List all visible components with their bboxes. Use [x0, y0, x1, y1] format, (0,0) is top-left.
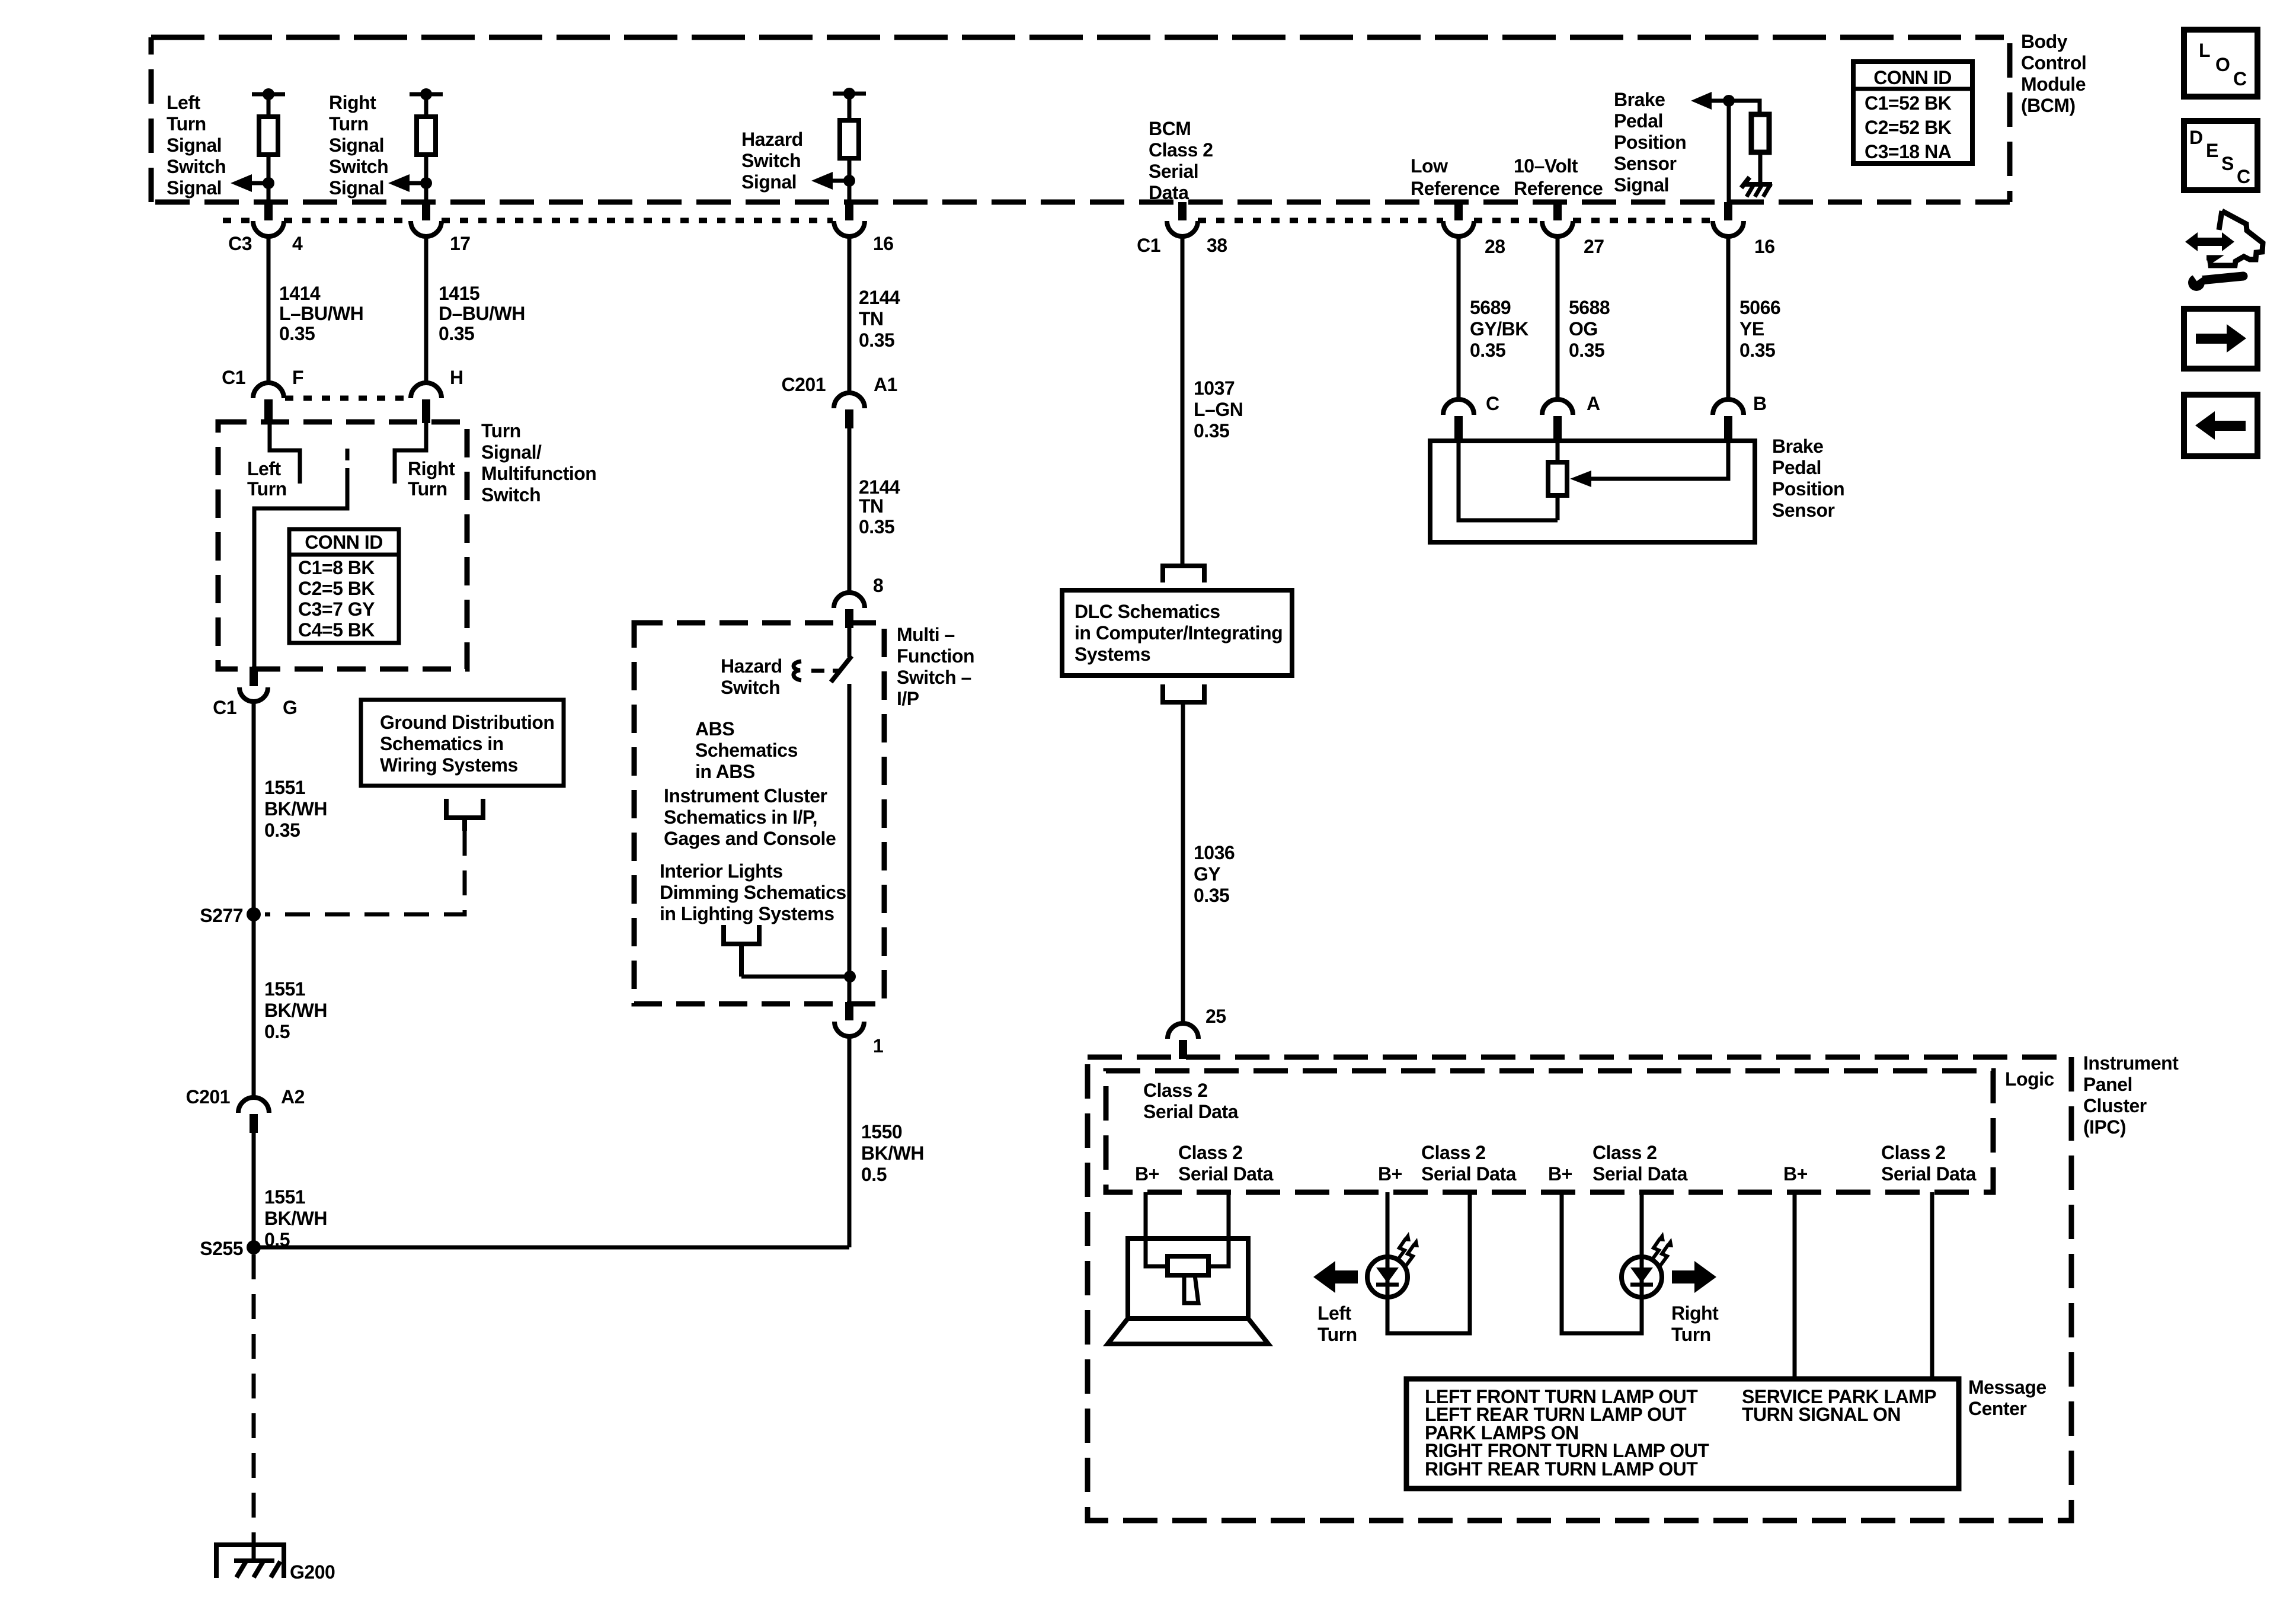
svg-text:Low: Low [1411, 155, 1448, 177]
svg-text:Switch: Switch [167, 156, 226, 177]
svg-text:BK/WH: BK/WH [861, 1142, 924, 1164]
svg-text:25: 25 [1205, 1006, 1226, 1027]
svg-text:Signal: Signal [741, 171, 797, 193]
node S277 [200, 905, 261, 926]
svg-text:Class 2: Class 2 [1143, 1080, 1208, 1101]
svg-text:Position: Position [1614, 132, 1686, 153]
wire 1414 [267, 236, 271, 383]
ABS schematics note [695, 718, 798, 782]
arrow brake pedal sensor signal (BCM internal) [1691, 92, 1760, 116]
svg-text:Class 2: Class 2 [1881, 1142, 1946, 1163]
resistor (BCM internal pullup) [1751, 114, 1769, 182]
svg-text:I/P: I/P [897, 688, 919, 709]
bracket below ground distribution box [446, 799, 483, 831]
svg-text:Panel: Panel [2083, 1074, 2132, 1095]
svg-text:0.35: 0.35 [439, 323, 474, 344]
svg-text:in Lighting Systems: in Lighting Systems [660, 903, 834, 924]
svg-text:RIGHT REAR TURN LAMP OUT: RIGHT REAR TURN LAMP OUT [1425, 1458, 1698, 1480]
wire 1036 [1181, 702, 1185, 1024]
svg-text:G200: G200 [290, 1561, 335, 1583]
svg-text:Body: Body [2021, 31, 2068, 52]
svg-text:S255: S255 [200, 1238, 243, 1259]
CONN ID table (BCM) [1853, 62, 1972, 164]
svg-text:Multifunction: Multifunction [481, 463, 596, 484]
class 2 serial data label 1 [1178, 1142, 1274, 1185]
class 2 serial data label 2 [1421, 1142, 1517, 1185]
connector C201 pin A2 [186, 1086, 305, 1133]
resistor (right turn, BCM internal) [410, 88, 443, 202]
LED right turn [1622, 1257, 1662, 1297]
connector C1 pin 28 [1443, 202, 1505, 257]
svg-text:Dimming Schematics: Dimming Schematics [660, 882, 846, 903]
svg-text:C: C [2233, 68, 2247, 89]
svg-text:Serial Data: Serial Data [1143, 1101, 1239, 1122]
svg-text:Turn: Turn [167, 113, 206, 135]
svg-text:Center: Center [1968, 1398, 2026, 1419]
dashed wire to G200 [252, 1254, 256, 1541]
arrow hazard switch signal [811, 172, 855, 190]
wire label 5688 OG 0.35 [1569, 297, 1610, 361]
svg-text:Ground Distribution: Ground Distribution [380, 712, 554, 733]
svg-text:1551: 1551 [264, 1186, 305, 1208]
right turn switch contact [395, 423, 426, 484]
connector pin 8 [834, 575, 883, 628]
resistor (hazard, BCM internal) [833, 88, 866, 202]
connector C1 pin F [222, 367, 303, 423]
BCM class 2 serial data label [1149, 118, 1213, 203]
svg-text:GY: GY [1194, 863, 1220, 885]
svg-text:5689: 5689 [1470, 297, 1511, 318]
svg-text:Turn: Turn [1318, 1324, 1357, 1345]
multifunction switch label [897, 624, 974, 709]
node S255 [200, 1238, 261, 1259]
connector pin 1 [834, 977, 883, 1057]
arrow right turn indicator [1672, 1261, 1716, 1293]
LED left turn [1367, 1257, 1408, 1297]
DLC schematics box [1062, 590, 1292, 676]
svg-text:A: A [1587, 393, 1600, 414]
svg-text:1551: 1551 [264, 777, 305, 798]
svg-text:L: L [2199, 40, 2210, 61]
svg-text:C2=5 BK: C2=5 BK [298, 578, 375, 599]
svg-text:1550: 1550 [861, 1121, 902, 1142]
svg-text:16: 16 [873, 233, 894, 254]
svg-text:0.5: 0.5 [264, 1021, 290, 1042]
ground G200 [216, 1541, 335, 1583]
svg-text:Reference: Reference [1514, 178, 1603, 199]
svg-text:28: 28 [1485, 236, 1505, 257]
svg-text:Instrument: Instrument [2083, 1052, 2179, 1074]
svg-text:L–BU/WH: L–BU/WH [279, 303, 363, 324]
svg-text:0.5: 0.5 [861, 1164, 887, 1185]
svg-text:C1: C1 [1137, 235, 1160, 256]
svg-text:0.35: 0.35 [1569, 340, 1604, 361]
svg-text:F: F [292, 367, 303, 388]
svg-text:C: C [2237, 166, 2250, 187]
svg-text:Instrument Cluster: Instrument Cluster [664, 785, 827, 806]
Brake Pedal Position Sensor box [1430, 441, 1755, 542]
class 2 serial data label 3 [1593, 1142, 1688, 1185]
left turn label [247, 458, 287, 500]
svg-text:Switch: Switch [329, 156, 388, 177]
connector C1 pin 27 [1542, 202, 1604, 257]
svg-text:Schematics in I/P,: Schematics in I/P, [664, 806, 817, 828]
arrow left turn signal [231, 174, 274, 192]
svg-text:BK/WH: BK/WH [264, 798, 327, 820]
svg-text:D: D [2189, 127, 2203, 148]
resistor (left turn, BCM internal) [252, 88, 285, 202]
svg-text:BK/WH: BK/WH [264, 1208, 327, 1229]
svg-text:1: 1 [873, 1035, 883, 1057]
svg-text:Serial Data: Serial Data [1881, 1163, 1977, 1185]
wire label 1037 L-GN 0.35 [1194, 377, 1243, 441]
wire 1037 [1181, 236, 1185, 566]
svg-text:Class 2: Class 2 [1178, 1142, 1243, 1163]
right turn label (IPC) [1671, 1302, 1719, 1345]
svg-text:Serial Data: Serial Data [1593, 1163, 1688, 1185]
wire label 1551 BK/WH 0.5 lower [264, 1186, 327, 1250]
svg-text:Schematics: Schematics [695, 740, 798, 761]
svg-text:CONN ID: CONN ID [1873, 67, 1952, 88]
svg-text:Signal: Signal [329, 135, 384, 156]
hazard switch blade [831, 628, 852, 977]
svg-text:2144: 2144 [859, 476, 900, 498]
svg-text:TN: TN [859, 495, 884, 517]
message center label [1968, 1377, 2046, 1419]
svg-text:B+: B+ [1135, 1163, 1159, 1185]
svg-text:Sensor: Sensor [1772, 500, 1835, 521]
svg-text:B+: B+ [1378, 1163, 1402, 1185]
svg-text:CONN ID: CONN ID [305, 532, 383, 553]
wire label 2144 TN 0.35 lower [859, 476, 900, 537]
svg-text:Message: Message [1968, 1377, 2046, 1398]
svg-text:TURN SIGNAL ON: TURN SIGNAL ON [1742, 1404, 1901, 1425]
wire 2144 upper [848, 236, 852, 393]
svg-text:27: 27 [1584, 236, 1604, 257]
svg-text:YE: YE [1739, 318, 1764, 340]
svg-text:Brake: Brake [1772, 436, 1823, 457]
class 2 serial data label 4 [1881, 1142, 1977, 1185]
svg-text:10–Volt: 10–Volt [1514, 155, 1578, 177]
svg-text:Reference: Reference [1411, 178, 1499, 199]
svg-text:in ABS: in ABS [695, 761, 755, 782]
connector C3 pin 4 [228, 202, 303, 254]
svg-text:Hazard: Hazard [741, 129, 803, 150]
Turn Signal / Multifunction Switch dashed box [218, 422, 467, 669]
svg-text:Position: Position [1772, 478, 1844, 500]
svg-text:Signal: Signal [167, 135, 222, 156]
arrow right turn signal [388, 174, 432, 192]
svg-text:OG: OG [1569, 318, 1598, 340]
svg-text:Right: Right [329, 92, 376, 113]
svg-text:Right: Right [1671, 1302, 1719, 1324]
wire label 1414 L-BU/WH 0.35 [279, 283, 363, 344]
svg-text:Class 2: Class 2 [1593, 1142, 1657, 1163]
svg-text:C: C [1486, 393, 1499, 414]
svg-text:C1=52 BK: C1=52 BK [1865, 92, 1952, 114]
svg-text:1551: 1551 [264, 978, 305, 1000]
wire label 1415 D-BU/WH 0.35 [439, 283, 525, 344]
svg-text:C3: C3 [228, 233, 252, 254]
svg-text:Signal: Signal [1614, 174, 1669, 196]
svg-text:Cluster: Cluster [2083, 1095, 2147, 1116]
svg-text:16: 16 [1754, 236, 1775, 257]
BCM Body Control Module dashed box [151, 37, 2010, 202]
ground (BCM internal) [1741, 177, 1772, 197]
junction node in multifunction switch [844, 971, 856, 982]
bracket above DLC box [1163, 566, 1204, 582]
svg-text:Signal/: Signal/ [481, 441, 542, 463]
svg-text:Pedal: Pedal [1772, 457, 1821, 478]
svg-text:Turn: Turn [481, 420, 521, 441]
left turn signal switch signal label [167, 92, 226, 199]
svg-text:C1: C1 [222, 367, 245, 388]
svg-text:38: 38 [1207, 235, 1227, 256]
message center box [1406, 1379, 1959, 1489]
wire label 5066 YE 0.35 [1739, 297, 1780, 361]
svg-text:Logic: Logic [2005, 1068, 2054, 1090]
svg-text:C201: C201 [186, 1086, 231, 1108]
DESC button [2184, 121, 2257, 190]
potentiometer wiring inside sensor [1459, 441, 1728, 520]
svg-text:ABS: ABS [695, 718, 734, 740]
left turn LED circuit wires [1387, 1192, 1470, 1333]
svg-text:Left: Left [167, 92, 201, 113]
connector C201 pin A1 [782, 374, 897, 428]
svg-text:GY/BK: GY/BK [1470, 318, 1528, 340]
svg-text:Switch: Switch [721, 677, 780, 698]
svg-text:Pedal: Pedal [1614, 110, 1663, 132]
hazard switch linkage [794, 661, 842, 680]
svg-text:1036: 1036 [1194, 842, 1235, 863]
svg-text:5066: 5066 [1739, 297, 1780, 318]
interior lights dimming note [660, 860, 846, 924]
wire 5689 [1457, 236, 1461, 399]
connector row C1 dotted line (F to H) [285, 396, 411, 401]
right turn signal switch signal label [329, 92, 388, 199]
svg-text:Sensor: Sensor [1614, 153, 1677, 174]
svg-text:17: 17 [450, 233, 471, 254]
connector row C1 dotted line [1198, 218, 1713, 223]
svg-text:Class 2: Class 2 [1421, 1142, 1486, 1163]
svg-text:0.35: 0.35 [1194, 885, 1229, 906]
svg-text:BK/WH: BK/WH [264, 1000, 327, 1021]
svg-text:Turn: Turn [247, 478, 287, 500]
svg-text:Switch –: Switch – [897, 667, 971, 688]
svg-text:DLC Schematics: DLC Schematics [1075, 601, 1220, 622]
svg-text:D–BU/WH: D–BU/WH [439, 303, 525, 324]
svg-text:B+: B+ [1783, 1163, 1808, 1185]
svg-text:0.35: 0.35 [1470, 340, 1505, 361]
svg-text:Hazard: Hazard [721, 655, 782, 677]
LED light rays left [1396, 1232, 1419, 1267]
10-volt reference label [1514, 155, 1603, 199]
svg-text:Turn: Turn [1671, 1324, 1711, 1345]
connector pin A [1542, 393, 1600, 440]
connector C3 pin 16 [834, 202, 894, 254]
svg-text:C4=5 BK: C4=5 BK [298, 619, 375, 641]
svg-text:0.35: 0.35 [279, 323, 315, 344]
wire 1551 upper [252, 701, 256, 1097]
connector pin 25 [1168, 1006, 1226, 1059]
class 2 serial data label (logic input) [1143, 1080, 1239, 1122]
svg-text:B+: B+ [1548, 1163, 1572, 1185]
svg-text:C2=52 BK: C2=52 BK [1865, 117, 1952, 138]
connector C1 pin 16 (brake signal) [1713, 202, 1775, 257]
svg-text:S277: S277 [200, 905, 243, 926]
wire 1550 [848, 1036, 852, 1247]
svg-text:2144: 2144 [859, 287, 900, 308]
svg-text:0.35: 0.35 [1739, 340, 1775, 361]
low reference label [1411, 155, 1499, 199]
svg-text:Serial: Serial [1149, 161, 1198, 182]
svg-text:Left: Left [1318, 1302, 1352, 1324]
svg-text:Signal: Signal [167, 177, 222, 199]
wire 5066 [1726, 236, 1731, 399]
Logic dashed box [1106, 1071, 1993, 1192]
svg-text:L–GN: L–GN [1194, 399, 1243, 420]
svg-text:Brake: Brake [1614, 89, 1665, 110]
svg-text:A2: A2 [281, 1086, 305, 1108]
wire label 2144 TN 0.35 [859, 287, 900, 351]
svg-text:H: H [450, 367, 463, 388]
message center wires [1795, 1192, 1932, 1379]
svg-text:Interior Lights: Interior Lights [660, 860, 783, 882]
svg-text:Class 2: Class 2 [1149, 139, 1213, 161]
bracket below interior lights note [724, 925, 849, 977]
svg-text:E: E [2206, 140, 2218, 161]
svg-text:S: S [2221, 153, 2234, 174]
connector pin B [1713, 393, 1767, 440]
wire label 5689 GY/BK 0.35 [1470, 297, 1528, 361]
switch box label [481, 420, 596, 505]
svg-text:Function: Function [897, 645, 974, 667]
svg-text:C3=18 NA: C3=18 NA [1865, 141, 1952, 162]
wire brake signal to connector [1727, 101, 1731, 202]
svg-text:0.35: 0.35 [1194, 420, 1229, 441]
svg-text:8: 8 [873, 575, 883, 596]
left turn label (IPC) [1318, 1302, 1357, 1345]
svg-text:Left: Left [247, 458, 282, 479]
dashed wire to S277 [265, 831, 465, 914]
Multi-Function Switch I/P dashed box [634, 623, 884, 1004]
svg-text:Right: Right [408, 458, 455, 479]
hazard switch label [721, 655, 782, 698]
svg-text:Control: Control [2021, 52, 2086, 73]
wire 2144 lower [848, 428, 852, 593]
svg-text:Serial Data: Serial Data [1178, 1163, 1274, 1185]
arrow left turn indicator [1313, 1261, 1358, 1293]
CONN ID table (switch) [289, 529, 399, 643]
connector C1 pin G [213, 667, 297, 718]
svg-text:Serial Data: Serial Data [1421, 1163, 1517, 1185]
svg-text:G: G [283, 697, 297, 718]
connector row C3 dotted line [223, 218, 833, 223]
svg-text:0.35: 0.35 [264, 820, 300, 841]
svg-text:(IPC): (IPC) [2083, 1116, 2126, 1138]
svg-text:in Computer/Integrating: in Computer/Integrating [1075, 622, 1283, 644]
svg-text:Gages and Console: Gages and Console [664, 828, 836, 849]
svg-text:1414: 1414 [279, 283, 321, 304]
connector C1 pin H [411, 367, 463, 423]
svg-text:O: O [2215, 54, 2230, 75]
right turn LED circuit wires [1562, 1192, 1642, 1333]
message display icon wires [1146, 1192, 1229, 1266]
svg-text:0.35: 0.35 [859, 516, 894, 537]
connector C1 pin 38 [1137, 202, 1227, 256]
svg-text:Turn: Turn [408, 478, 447, 500]
connector pin C [1443, 393, 1499, 440]
svg-text:A1: A1 [874, 374, 897, 395]
hazard switch signal label [741, 129, 803, 193]
svg-text:Module: Module [2021, 73, 2086, 95]
svg-text:BCM: BCM [1149, 118, 1191, 139]
svg-text:Data: Data [1149, 182, 1189, 203]
vehicle data icon [2185, 211, 2263, 291]
svg-text:Turn: Turn [329, 113, 369, 135]
svg-text:C3=7 GY: C3=7 GY [298, 598, 375, 620]
wire 1415 [424, 236, 428, 383]
svg-text:TN: TN [859, 308, 884, 329]
svg-text:Signal: Signal [329, 177, 384, 199]
svg-text:0.35: 0.35 [859, 329, 894, 351]
bracket below DLC box [1163, 684, 1204, 702]
svg-text:Wiring Systems: Wiring Systems [380, 754, 518, 776]
right turn label [408, 458, 455, 500]
next button [2184, 309, 2257, 369]
svg-text:1037: 1037 [1194, 377, 1235, 399]
LED light rays right [1651, 1232, 1673, 1267]
svg-text:(BCM): (BCM) [2021, 95, 2076, 116]
svg-text:Switch: Switch [741, 150, 801, 171]
svg-text:C1=8 BK: C1=8 BK [298, 557, 375, 578]
message display icon [1108, 1238, 1268, 1344]
svg-text:Schematics in: Schematics in [380, 733, 504, 754]
wire S255 to multifunction switch [254, 1246, 849, 1250]
IPC label [2083, 1052, 2179, 1138]
svg-text:Systems: Systems [1075, 644, 1150, 665]
wire 5688 [1556, 236, 1560, 399]
wire label 1550 BK/WH 0.5 [861, 1121, 924, 1185]
left turn switch contact [270, 423, 300, 484]
svg-text:1415: 1415 [439, 283, 479, 304]
switch pole wire [254, 449, 347, 669]
instrument cluster schematics note [664, 785, 836, 849]
svg-text:Switch: Switch [481, 484, 541, 505]
svg-text:B: B [1753, 393, 1767, 414]
brake pedal position sensor signal label [1614, 89, 1686, 196]
wire label 1551 BK/WH 0.35 [264, 777, 327, 841]
svg-text:Multi –: Multi – [897, 624, 955, 645]
LOC button [2184, 30, 2257, 97]
wire label 1036 GY 0.35 [1194, 842, 1235, 906]
wire label 1551 BK/WH 0.5 [264, 978, 327, 1042]
Ground Distribution box [361, 700, 564, 786]
svg-text:5688: 5688 [1569, 297, 1610, 318]
BCM module label [2021, 31, 2086, 116]
sensor label [1772, 436, 1844, 521]
connector C3 pin 17 [411, 202, 471, 254]
svg-text:C201: C201 [782, 374, 826, 395]
IPC Instrument Panel Cluster dashed box [1088, 1057, 2071, 1521]
svg-text:C1: C1 [213, 697, 236, 718]
back button [2184, 395, 2257, 456]
svg-text:4: 4 [292, 233, 303, 254]
